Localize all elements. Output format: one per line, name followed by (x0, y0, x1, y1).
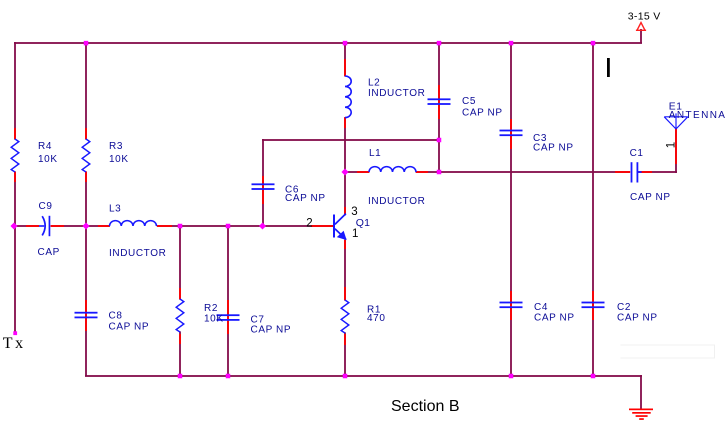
svg-text:Section B: Section B (391, 398, 459, 415)
svg-text:C4: C4 (534, 302, 548, 313)
svg-text:1: 1 (666, 142, 678, 148)
svg-text:Tx: Tx (3, 335, 26, 352)
svg-text:CAP NP: CAP NP (617, 313, 658, 324)
svg-text:1: 1 (352, 228, 358, 240)
svg-text:R2: R2 (204, 303, 218, 314)
svg-text:CAP NP: CAP NP (534, 313, 575, 324)
svg-text:10K: 10K (204, 314, 224, 325)
svg-text:3: 3 (351, 206, 357, 218)
svg-text:C9: C9 (39, 201, 53, 212)
svg-text:C8: C8 (109, 311, 123, 322)
svg-text:10K: 10K (109, 154, 129, 165)
svg-text:470: 470 (367, 313, 386, 324)
svg-text:10K: 10K (38, 154, 58, 165)
svg-text:ANTENNA: ANTENNA (669, 110, 726, 121)
svg-text:L3: L3 (109, 204, 121, 215)
svg-text:L2: L2 (368, 78, 380, 89)
svg-text:R3: R3 (109, 141, 123, 152)
svg-text:C1: C1 (630, 148, 644, 159)
svg-text:CAP NP: CAP NP (109, 322, 150, 333)
svg-text:3-15 V: 3-15 V (628, 11, 661, 23)
svg-text:CAP NP: CAP NP (630, 192, 671, 203)
svg-text:INDUCTOR: INDUCTOR (109, 248, 166, 259)
svg-text:CAP NP: CAP NP (533, 143, 574, 154)
svg-text:C5: C5 (462, 96, 476, 107)
svg-text:L1: L1 (369, 148, 381, 159)
svg-text:2: 2 (306, 217, 312, 229)
svg-text:INDUCTOR: INDUCTOR (368, 196, 425, 207)
svg-text:CAP NP: CAP NP (251, 325, 292, 336)
svg-text:CAP NP: CAP NP (462, 108, 503, 119)
svg-text:INDUCTOR: INDUCTOR (368, 88, 425, 99)
svg-text:C2: C2 (617, 302, 631, 313)
svg-text:R4: R4 (38, 141, 52, 152)
svg-text:CAP NP: CAP NP (285, 193, 326, 204)
svg-text:CAP: CAP (38, 247, 60, 258)
